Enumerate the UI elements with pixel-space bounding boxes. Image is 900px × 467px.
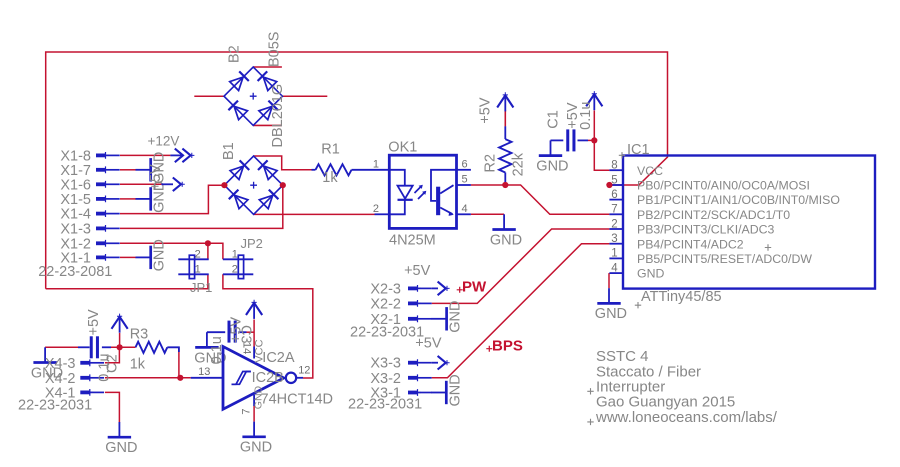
svg-text:5: 5 xyxy=(462,174,468,186)
svg-text:PB3/PCINT3/CLKI/ADC3: PB3/PCINT3/CLKI/ADC3 xyxy=(637,223,775,237)
svg-text:X2-2: X2-2 xyxy=(370,296,401,312)
svg-text:GND: GND xyxy=(490,232,522,248)
svg-text:VCC: VCC xyxy=(637,164,663,178)
svg-text:1: 1 xyxy=(232,249,238,261)
svg-text:PB5/PCINT5/RESET/ADC0/DW: PB5/PCINT5/RESET/ADC0/DW xyxy=(637,252,812,266)
svg-text:X1-6: X1-6 xyxy=(60,177,91,193)
svg-text:ATTiny45/85: ATTiny45/85 xyxy=(641,289,722,305)
svg-text:C1: C1 xyxy=(546,110,562,129)
svg-text:2: 2 xyxy=(195,249,201,261)
svg-text:OK1: OK1 xyxy=(388,139,417,155)
svg-text:GND: GND xyxy=(253,385,265,409)
svg-text:+5V: +5V xyxy=(404,263,431,279)
svg-text:+5V: +5V xyxy=(415,335,442,351)
svg-text:GND: GND xyxy=(595,306,627,322)
svg-text:1: 1 xyxy=(373,158,379,170)
svg-text:3: 3 xyxy=(611,233,617,245)
svg-text:X2-3: X2-3 xyxy=(370,281,401,297)
svg-text:PB1/PCINT1/AIN1/OC0B/INT0/MISO: PB1/PCINT1/AIN1/OC0B/INT0/MISO xyxy=(637,193,840,207)
svg-text:7: 7 xyxy=(611,204,617,216)
svg-text:GND: GND xyxy=(637,267,664,281)
svg-text:X1-4: X1-4 xyxy=(60,207,91,223)
svg-text:X1-5: X1-5 xyxy=(60,192,91,208)
svg-text:+5V: +5V xyxy=(148,164,164,191)
svg-text:12: 12 xyxy=(298,364,310,376)
svg-text:7: 7 xyxy=(241,408,253,414)
svg-text:BPS: BPS xyxy=(492,338,523,355)
svg-text:B2: B2 xyxy=(227,45,243,63)
svg-text:22-23-2031: 22-23-2031 xyxy=(348,396,422,412)
svg-text:VCC: VCC xyxy=(253,339,265,362)
svg-text:IC2A: IC2A xyxy=(262,350,295,366)
svg-text:74HCT14D: 74HCT14D xyxy=(261,391,334,407)
svg-text:X4-2: X4-2 xyxy=(45,371,76,387)
svg-text:2: 2 xyxy=(232,263,238,275)
svg-text:0.1u: 0.1u xyxy=(97,353,113,381)
svg-text:GND: GND xyxy=(105,440,137,456)
svg-text:JP1: JP1 xyxy=(190,280,212,295)
svg-text:13: 13 xyxy=(198,366,210,378)
svg-text:5: 5 xyxy=(611,174,617,186)
svg-text:PB4/PCINT4/ADC2: PB4/PCINT4/ADC2 xyxy=(637,237,744,251)
svg-text:B1: B1 xyxy=(221,142,237,160)
svg-text:X3-3: X3-3 xyxy=(370,356,401,372)
svg-text:1: 1 xyxy=(195,263,201,275)
svg-text:4N25M: 4N25M xyxy=(389,232,436,248)
svg-text:6: 6 xyxy=(462,158,468,170)
svg-text:+5V: +5V xyxy=(229,316,245,343)
svg-text:8: 8 xyxy=(611,160,617,172)
svg-text:0.1u: 0.1u xyxy=(578,102,594,130)
svg-text:+12V: +12V xyxy=(148,133,180,148)
svg-text:JP2: JP2 xyxy=(241,236,263,251)
svg-text:PB2/PCINT2/SCK/ADC1/T0: PB2/PCINT2/SCK/ADC1/T0 xyxy=(637,208,790,222)
svg-text:6: 6 xyxy=(611,189,617,201)
svg-text:22k: 22k xyxy=(511,152,527,176)
svg-text:PW: PW xyxy=(462,279,487,296)
svg-text:+5V: +5V xyxy=(86,309,102,336)
svg-text:X1-3: X1-3 xyxy=(60,221,91,237)
svg-text:1: 1 xyxy=(611,248,617,260)
svg-text:R3: R3 xyxy=(130,326,149,342)
svg-text:2: 2 xyxy=(373,203,379,215)
svg-text:GND: GND xyxy=(536,158,568,174)
svg-text:GND: GND xyxy=(240,440,272,456)
svg-text:1k: 1k xyxy=(322,170,338,186)
svg-text:22-23-2081: 22-23-2081 xyxy=(38,264,112,280)
svg-text:0.1u: 0.1u xyxy=(209,336,225,364)
svg-text:22-23-2031: 22-23-2031 xyxy=(18,398,92,414)
svg-text:4: 4 xyxy=(611,262,618,274)
svg-text:DBL201G: DBL201G xyxy=(270,84,286,148)
svg-text:www.loneoceans.com/labs/: www.loneoceans.com/labs/ xyxy=(595,409,778,426)
svg-text:PB0/PCINT0/AIN0/OC0A/MOSI: PB0/PCINT0/AIN0/OC0A/MOSI xyxy=(637,179,810,193)
svg-text:X4-3: X4-3 xyxy=(45,356,76,372)
svg-text:22-23-2031: 22-23-2031 xyxy=(350,324,424,340)
svg-text:+5V: +5V xyxy=(477,97,493,124)
svg-text:B05S: B05S xyxy=(267,32,283,67)
svg-text:X3-2: X3-2 xyxy=(370,371,401,387)
svg-text:IC2B: IC2B xyxy=(252,370,284,386)
svg-text:2: 2 xyxy=(611,218,617,230)
svg-text:GND: GND xyxy=(152,239,168,271)
svg-text:IC1: IC1 xyxy=(627,142,650,158)
svg-text:4: 4 xyxy=(462,203,468,215)
svg-text:R2: R2 xyxy=(482,154,498,173)
svg-text:1k: 1k xyxy=(130,357,146,373)
svg-text:R1: R1 xyxy=(321,142,340,158)
svg-text:GND: GND xyxy=(447,374,463,406)
svg-text:GND: GND xyxy=(448,301,464,333)
